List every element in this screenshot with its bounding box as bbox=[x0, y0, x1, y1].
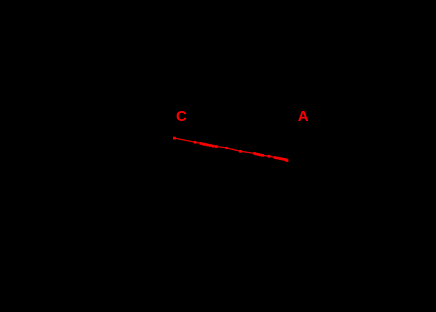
svg-text:C: C bbox=[176, 108, 187, 125]
svg-text:A: A bbox=[298, 108, 309, 125]
data point markers (red squares) bbox=[173, 137, 288, 162]
data series line (red) bbox=[174, 138, 287, 161]
